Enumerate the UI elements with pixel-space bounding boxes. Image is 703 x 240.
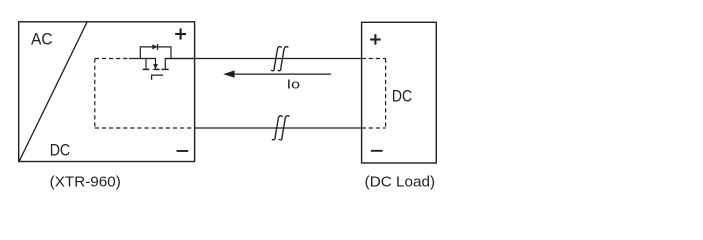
current arrow Io: [233, 73, 331, 75]
minus terminal (load box): [371, 150, 383, 152]
AC/DC divider diagonal: [19, 22, 87, 161]
plus terminal (left box): [175, 28, 186, 39]
body diode D1 loop: [140, 47, 171, 59]
dashed isolation rectangle: top-right segment: [362, 58, 386, 60]
mosfet Q1 drain contact stub: [145, 59, 147, 69]
mosfet Q1 channel bar 1: [143, 68, 150, 70]
wire-break symbol (bottom rail): [272, 116, 283, 140]
dashed isolation rectangle: left edge: [94, 59, 96, 129]
wire: + rail from converter to load: [165, 58, 361, 60]
dashed isolation rectangle: top-left segment: [95, 58, 129, 60]
svg-text:(DC Load): (DC Load): [365, 175, 435, 191]
dashed isolation rectangle: bottom-right segment: [362, 127, 386, 129]
body diode D1 triangle: [152, 44, 157, 49]
converter box U1 (XTR-960): [19, 22, 195, 162]
mosfet Q1 channel bar 3: [162, 68, 169, 70]
svg-text:DC: DC: [50, 141, 70, 160]
svg-text:(XTR-960): (XTR-960): [50, 175, 121, 191]
svg-text:Io: Io: [287, 77, 300, 92]
minus terminal (left box): [177, 150, 189, 152]
plus terminal (load box): [370, 34, 381, 45]
mosfet Q1 gate: [152, 75, 164, 80]
dashed isolation rectangle: bottom-left segment: [95, 127, 195, 129]
dashed isolation rectangle: right edge: [385, 59, 387, 129]
wire: - rail from converter to load: [195, 127, 362, 129]
body diode D1 cathode bar: [157, 44, 159, 50]
mosfet Q1 channel bar 2: [153, 68, 159, 70]
svg-text:DC: DC: [392, 87, 412, 106]
mosfet Q1 body arrow: [153, 64, 158, 69]
load box (DC Load): [362, 22, 437, 163]
svg-text:AC: AC: [31, 30, 53, 49]
mosfet Q1 left lead wire: [129, 59, 156, 65]
mosfet Q1 source contact + right lead wire: [165, 59, 194, 69]
